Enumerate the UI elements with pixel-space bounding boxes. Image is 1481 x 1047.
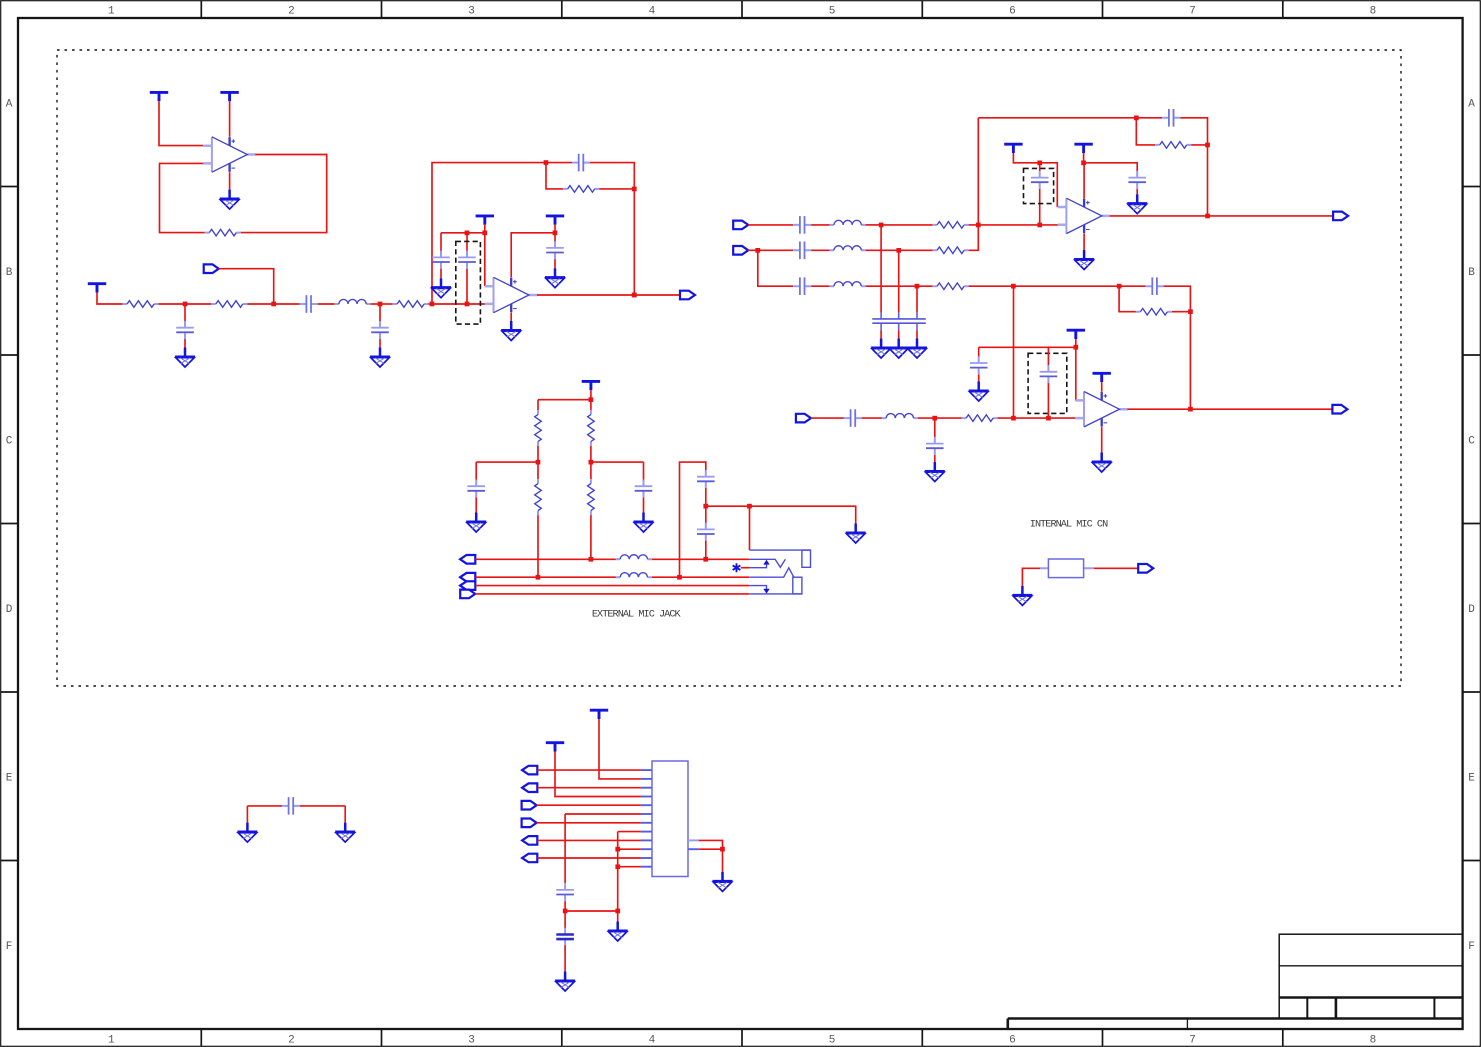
junction J23 (1081, 161, 1086, 166)
wire J23 to U3 V+ (1083, 163, 1086, 198)
ground G5 (545, 268, 565, 288)
ground G4 (431, 278, 451, 298)
wire R3 to node J2 (247, 303, 273, 305)
wire pin12 branch (618, 866, 641, 868)
wire J36 to jack sleeve (749, 506, 751, 550)
wire jack row2 (475, 576, 616, 578)
wire row2 d (866, 249, 899, 251)
wire J30 to R14 (537, 462, 539, 479)
op-amp U4 (1075, 392, 1128, 427)
inductor L1 (335, 299, 371, 304)
wire P2 to U1 V+ (229, 101, 231, 137)
junction J7b (632, 293, 637, 298)
wire J22 to C13 (1039, 163, 1041, 171)
wire J18 down to R11 (1119, 286, 1136, 312)
port CN-11 (522, 854, 537, 863)
svg-text:2: 2 (288, 6, 295, 18)
wire R12 to J30 (537, 446, 539, 462)
wire P3 corner (97, 293, 123, 305)
wire fb2 top (1119, 285, 1146, 287)
wire J9 to C6 (466, 233, 468, 251)
svg-text:C: C (6, 435, 13, 447)
wire J24 cap branch (934, 418, 936, 437)
ground G8 (1074, 250, 1094, 270)
junction J33 (589, 557, 594, 562)
wire P20 to pin4 (555, 752, 641, 797)
wire R5 to right rail (599, 188, 634, 190)
power symbol P11 (1074, 144, 1092, 153)
port JACK-1 (460, 555, 475, 564)
wire C16 to ground (934, 455, 936, 462)
no-connect star (733, 563, 741, 572)
wire P17 to J29 (590, 390, 592, 400)
ground G13 (969, 382, 989, 402)
wire bank drop 2 (898, 250, 900, 312)
capacitor C16 (926, 437, 944, 455)
power symbol P17 (582, 381, 600, 390)
connector CN1 body (652, 761, 688, 877)
power symbol P15 (1093, 373, 1111, 382)
capacitor C8 (793, 216, 811, 234)
wire J22 to U3 +in (1040, 163, 1058, 207)
wire C22 to row1 (705, 541, 707, 560)
wire C11 to fb rail (1164, 286, 1191, 409)
capacitor C2 (176, 321, 194, 339)
wire U2 V- to ground (510, 313, 512, 321)
junction J18 (1117, 284, 1122, 289)
wire J31 right (591, 461, 644, 463)
inductor L5 (882, 414, 918, 419)
wire pin10 branch (618, 848, 641, 850)
port CN-7 (522, 819, 537, 828)
wire J9 to C5 (440, 233, 442, 251)
capacitor C24 (556, 928, 574, 946)
svg-text:E: E (6, 772, 13, 784)
wire J30 left (476, 461, 538, 463)
connector J-EXT jack body (749, 550, 810, 594)
resistor R14 (535, 479, 542, 515)
wire J4 feedback rail up (432, 163, 546, 304)
wire CN-MIC to ground (1022, 568, 1040, 586)
dashed highlight box D1 (456, 241, 481, 324)
wire C25 left drop (246, 806, 248, 823)
wire bank gnd 3 (916, 330, 918, 338)
junction J42 (720, 847, 725, 852)
junction J34 (677, 575, 682, 580)
wire C2 to ground (184, 339, 186, 348)
port IN-M (796, 414, 811, 423)
wire J31 to R15 (590, 462, 592, 479)
ground G6 (501, 321, 521, 341)
ground G3 (370, 348, 390, 368)
svg-text:6: 6 (1009, 1035, 1016, 1047)
component CN-MIC body (1048, 559, 1083, 578)
junction J7 (632, 293, 637, 298)
wire U3 V- to ground (1083, 234, 1085, 250)
wire R15 to row1 (590, 515, 592, 559)
wire bias top (538, 399, 591, 401)
resistor R15 (588, 479, 595, 515)
junction J29 (589, 397, 594, 402)
power symbol P6 (546, 216, 564, 225)
junction J22 (1037, 161, 1042, 166)
port MIC-BIAS (204, 264, 219, 273)
wire pin8 branch (618, 831, 641, 833)
wire U4 V- to ground (1101, 427, 1103, 453)
wire pin3 (537, 787, 640, 789)
wire J10 to U2 V+ (511, 233, 555, 277)
wire bank drop 1 (880, 225, 882, 313)
capacitor C9 (793, 242, 811, 260)
wire R2 to node J1 (159, 303, 185, 305)
svg-text:A: A (1468, 98, 1475, 110)
power symbol P19 (590, 710, 608, 719)
junction J38 (563, 909, 568, 914)
wire J23 to C14 (1084, 163, 1138, 171)
wire row4 c (918, 417, 935, 419)
capacitor C18 (1040, 365, 1058, 383)
wire R9 to rail (1191, 144, 1207, 146)
capacitor C7 (546, 241, 564, 259)
wire jack row2 b (652, 576, 749, 578)
port JACK-2 (460, 573, 475, 582)
power symbol P20 (546, 743, 564, 752)
junction J15 (896, 248, 901, 253)
port LINE-OUT-L (1333, 212, 1348, 221)
wire row3 b (811, 285, 829, 287)
wire J1 cap branch (184, 304, 186, 321)
wire row3 d (917, 285, 933, 287)
ground G9 (871, 339, 891, 359)
resistor R8 (933, 283, 969, 290)
port IN-L (733, 221, 748, 230)
inductor L6 (616, 555, 652, 560)
svg-text:INTERNAL MIC CN: INTERNAL MIC CN (1030, 519, 1108, 530)
wire C12 to rail (1180, 118, 1207, 216)
svg-text:8: 8 (1370, 1035, 1377, 1047)
wire R1 to U1 output (241, 155, 327, 233)
wire to R12 (537, 400, 539, 410)
wire C3 to ground (379, 339, 381, 348)
svg-text:3: 3 (468, 1035, 475, 1047)
wire U4 output (1128, 408, 1333, 410)
junction J35 (703, 504, 708, 509)
ground G18 (1012, 586, 1032, 606)
capacitor C-bank3 (872, 312, 926, 330)
capacitor C19 (467, 480, 485, 498)
port CN-1 (522, 766, 537, 775)
port JACK-4 (460, 590, 475, 599)
resistor R4 (393, 301, 429, 308)
resistor R5 (563, 186, 599, 193)
wire row4 a (811, 417, 844, 419)
wire C25 right (300, 805, 345, 807)
wire bank gnd 2 (898, 330, 900, 338)
capacitor C25 (282, 797, 300, 815)
svg-text:D: D (6, 604, 13, 616)
wire to C19 (475, 462, 477, 480)
port CN-5 (522, 801, 537, 810)
resistor R10 (962, 415, 998, 422)
wire R11 to fb rail (1172, 311, 1191, 313)
wire jack row4 (475, 593, 749, 595)
junction J16 (915, 284, 920, 289)
port CN-9 (522, 836, 537, 845)
wire C7 to ground (554, 259, 556, 268)
wire right pin2 (699, 848, 723, 850)
junction J20 (1205, 143, 1210, 148)
wire C14 to ground (1136, 189, 1138, 194)
wire U3 output (1110, 215, 1333, 217)
junction J4b (465, 302, 470, 307)
wire row2 e (899, 249, 933, 251)
capacitor C20 (635, 480, 653, 498)
junction J9 (465, 231, 470, 236)
wire C25 left (247, 805, 282, 807)
wire row1 d (881, 224, 933, 226)
junction J30 (536, 460, 541, 465)
resistor R7 (933, 247, 969, 254)
junction J26 (1046, 416, 1051, 421)
wire L1 to node J3 (371, 303, 381, 305)
capacitor C-bank2 (898, 312, 900, 330)
svg-text:5: 5 (829, 1035, 836, 1047)
svg-text:B: B (6, 267, 13, 279)
wire J1 to R3 (185, 303, 211, 305)
wire row4 b (862, 417, 882, 419)
wire row4 e (998, 417, 1076, 419)
wire J27 down to U4 +in (1075, 347, 1077, 400)
svg-text:5: 5 (829, 6, 836, 18)
inductor L3 (830, 246, 866, 251)
wire jack row3 (475, 585, 749, 587)
junction J32 (536, 575, 541, 580)
wire P11 to J23 (1083, 153, 1085, 163)
wire C13 to row1 (1039, 189, 1041, 225)
wire P15 to U4 V+ (1101, 382, 1103, 391)
wire rail to C17 (978, 347, 980, 356)
port INT-MIC (1138, 564, 1153, 573)
wire J8 down to U2 +in (484, 233, 486, 286)
inductor L4 (830, 282, 866, 287)
junction J24 (932, 416, 937, 421)
svg-text:7: 7 (1189, 6, 1196, 18)
ground G1 (220, 190, 240, 210)
resistor R1 (205, 229, 241, 236)
capacitor C11 (1146, 277, 1164, 295)
wire C1 to L1 (318, 303, 335, 305)
wire J38 to C24 (564, 911, 566, 928)
wire C5/C6 top rail (441, 232, 485, 234)
capacitor C14 (1128, 171, 1146, 189)
wire to C20 (643, 462, 645, 480)
junction J25 (1011, 416, 1016, 421)
capacitor C15 (844, 409, 862, 427)
wire C17 to ground (978, 374, 980, 381)
resistor R11 (1136, 308, 1172, 315)
power symbol P1 (150, 92, 168, 101)
capacitor C23 (556, 883, 574, 901)
capacitor C12 (1162, 109, 1180, 127)
wire to R13 (590, 400, 592, 410)
wire +in rail horizontal (979, 346, 1076, 348)
junction J41 (615, 864, 620, 869)
wire bank drop 3 (916, 286, 918, 312)
capacitor C10 (793, 277, 811, 295)
svg-text:8: 8 (1370, 6, 1377, 18)
wire C5 to ground (440, 269, 442, 279)
wire J5 to C4 (546, 162, 572, 164)
op-amp U2 (485, 277, 538, 312)
junction J29b (1188, 309, 1193, 314)
port IN-R (733, 246, 748, 255)
ground G12 (925, 462, 945, 482)
svg-text:F: F (1468, 941, 1475, 953)
ground G10 (889, 339, 909, 359)
wire row1 b (811, 224, 829, 226)
capacitor C13 (1031, 171, 1049, 189)
wire jack top branch (680, 462, 706, 577)
wire row3 drop to row4 (1013, 286, 1015, 418)
junction J19 (1134, 116, 1139, 121)
junction J40 (615, 847, 620, 852)
junction J28 (1188, 407, 1193, 412)
wire C19 to ground (475, 498, 477, 513)
wire pin5 (537, 804, 641, 806)
dashed highlight box D3 (1028, 353, 1067, 413)
capacitor C17 (970, 356, 988, 374)
svg-text:A: A (6, 98, 13, 110)
junction J8 (482, 231, 487, 236)
wire pin9 (537, 839, 640, 841)
dotted section boundary (57, 50, 1401, 686)
wire C4 to right rail (590, 163, 634, 295)
wire port to J2 (219, 269, 274, 304)
junction J36 (747, 504, 752, 509)
op-amp U1 (203, 137, 256, 172)
wire U2 output to port (537, 294, 680, 296)
wire row3 c (866, 285, 917, 287)
junction J31 (589, 460, 594, 465)
ground G7 (1127, 194, 1147, 214)
wire C18 to row4 (1047, 383, 1049, 418)
svg-text:2: 2 (288, 1035, 295, 1047)
wire row2 b (758, 249, 793, 251)
wire P6 to J10 (554, 225, 556, 233)
wire C6 to main line (466, 269, 468, 304)
wire bank gnd 1 (880, 330, 882, 338)
svg-text:E: E (1468, 772, 1475, 784)
capacitor C4 (572, 154, 590, 172)
junction J12 (976, 223, 981, 228)
port MIC-OUT1 (680, 291, 695, 300)
wire to C22 (705, 506, 707, 523)
power symbol P2 (220, 92, 238, 101)
ground G14 (1092, 453, 1112, 473)
inductor L7 (616, 573, 652, 578)
wire jack row1 a (475, 558, 616, 560)
junction J14 (755, 248, 760, 253)
wire row1 a (748, 224, 793, 226)
junction J5 (544, 160, 549, 165)
wire C25 right drop (344, 806, 346, 823)
junction J21 (1205, 214, 1210, 219)
wire C20 to ground (643, 498, 645, 513)
junction J10 (553, 231, 558, 236)
wire J5 down to R5 (546, 163, 563, 189)
wire pin1 (537, 769, 640, 771)
svg-text:C: C (1468, 435, 1475, 447)
wire P1 to U1 +in (159, 101, 203, 145)
junction J27 (1074, 345, 1079, 350)
port LINE-OUT-R (1332, 405, 1347, 414)
wire J10 to C7 (554, 233, 556, 242)
capacitor C1 (300, 295, 318, 313)
wire P19 to pin2 (599, 719, 641, 779)
resistor R3 (211, 301, 247, 308)
resistor R9 (1155, 142, 1191, 149)
junction J6 (632, 187, 637, 192)
wire J19 down to R9 (1136, 118, 1155, 145)
svg-text:F: F (6, 941, 13, 953)
wire row3 from J14 (758, 250, 793, 286)
wire star stub (741, 567, 750, 569)
wire pin11 (537, 857, 640, 859)
junction J3 (378, 302, 383, 307)
junction J39 (615, 909, 620, 914)
wire R13 to J31 (590, 446, 592, 462)
svg-text:1: 1 (108, 1035, 115, 1047)
wire pin6 branch (565, 813, 641, 815)
svg-text:D: D (1468, 604, 1475, 616)
ground G23 (335, 823, 355, 843)
wire feedback top (978, 117, 1136, 119)
connector CN1 right pins (688, 840, 699, 849)
svg-text:B: B (1468, 267, 1475, 279)
svg-text:7: 7 (1189, 1035, 1196, 1047)
wire R4 to U2 -in (429, 303, 485, 305)
svg-text:4: 4 (649, 6, 656, 18)
op-amp U3 (1058, 198, 1111, 233)
capacitor C-bank1 (880, 312, 882, 330)
wire row3 e (969, 285, 1120, 287)
wire U1 -in feedback left (160, 163, 205, 232)
resistor R13 (588, 410, 595, 446)
capacitor C6 (458, 251, 476, 269)
wire J38 to gnd rail (565, 910, 618, 912)
jack switch arrow down (763, 589, 769, 594)
junction J11 (879, 223, 884, 228)
capacitor C21 (697, 470, 715, 488)
wire C21 to J35 (705, 488, 707, 506)
wire R14 to row2 (537, 515, 539, 577)
wire C24 to ground (564, 945, 566, 971)
wire right pins to ground (699, 840, 723, 872)
capacitor C3 (371, 321, 389, 339)
power symbol P5 (476, 216, 494, 225)
wire C23 to J38 (564, 901, 566, 911)
wire J3 to R4 (380, 303, 393, 305)
power symbol P10 (1004, 144, 1022, 153)
connector CN1 left pins (641, 770, 652, 867)
wire P14 to J27 (1075, 339, 1077, 347)
resistor R12 (535, 410, 542, 446)
wire J19 to C12 (1136, 117, 1162, 119)
wire row2 a (748, 249, 758, 251)
power symbol P14 (1067, 330, 1085, 339)
resistor R6 (933, 222, 969, 229)
wire J3 cap branch (379, 304, 381, 321)
